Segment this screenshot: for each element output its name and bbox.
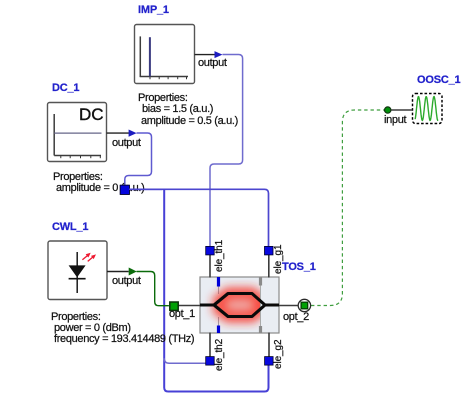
source block IMP_1 (impulse generator) <box>135 25 195 84</box>
output arrow of IMP_1 <box>195 51 223 58</box>
label OOSC_1 <box>417 74 460 86</box>
label TOS_1 <box>282 261 316 273</box>
port label ele_th1 (rotated) <box>214 239 225 271</box>
port ele_g2 <box>265 357 274 366</box>
properties of IMP_1 <box>138 92 188 104</box>
junction node on DC net <box>120 185 129 194</box>
wire branch to ele_th2 <box>164 358 206 363</box>
port stub ele_g1 <box>268 255 270 278</box>
port stub ele_g2 <box>268 333 270 357</box>
port label opt_2 <box>283 311 309 323</box>
port stub opt_1 <box>178 305 201 307</box>
oscilloscope block OOSC_1 <box>413 94 443 124</box>
port ele_g1 <box>265 246 274 255</box>
port label input <box>384 114 406 126</box>
electrode right (grey marks) of TOS_1 <box>260 277 262 333</box>
port stub ele_th1 <box>209 255 211 278</box>
wire CWL_1 output to opt_1 (optical, green) <box>137 272 169 306</box>
modulator block TOS_1 (Mach-Zehnder, red glow) <box>200 277 279 333</box>
port label ele_g2 (rotated) <box>273 339 284 368</box>
Mach-Zehnder waveguide of TOS_1 <box>200 294 279 317</box>
wire over text segment <box>129 188 162 190</box>
wire DC_1 output to junction <box>125 133 152 186</box>
wire junction down to ele_g2 (vertical trunk and bottom run) <box>164 189 268 391</box>
label DC_1 <box>52 82 79 94</box>
port label output of IMP_1 <box>198 57 227 69</box>
source block DC_1 (DC source) <box>48 103 107 162</box>
port ele_th1 <box>206 246 215 255</box>
port ele_th2 <box>206 357 215 366</box>
properties of DC_1 <box>53 171 103 183</box>
port label ele_g1 (rotated) <box>273 244 284 273</box>
wire opt_2 to OOSC_1 input (optical, green dashed) <box>311 110 384 306</box>
port label opt_1 <box>169 308 195 320</box>
label IMP_1 <box>138 4 169 16</box>
junction node square (over text) <box>120 185 129 194</box>
output arrow of DC_1 <box>107 130 137 137</box>
port label output of CWL_1 <box>112 275 141 287</box>
laser block CWL_1 (CW laser, LED symbol) <box>48 241 107 300</box>
label CWL_1 <box>52 221 88 233</box>
wire junction to ele_g1 <box>129 189 268 246</box>
wire IMP_1 output to ele_th1 <box>210 55 243 247</box>
value label DC symbol text <box>79 105 104 125</box>
properties of CWL_1 <box>51 311 101 323</box>
output arrow of CWL_1 (green optical) <box>107 268 137 276</box>
port label output of DC_1 <box>112 137 141 149</box>
port stub ele_th2 <box>209 333 211 357</box>
electrode left (blue marks) of TOS_1 <box>217 277 220 333</box>
port opt_2 (circle with green square) <box>298 299 310 311</box>
port label ele_th2 (rotated) <box>214 339 225 371</box>
port input of OOSC_1 <box>385 107 413 113</box>
port opt_1 <box>170 302 178 310</box>
port stub opt_2 <box>279 305 298 307</box>
